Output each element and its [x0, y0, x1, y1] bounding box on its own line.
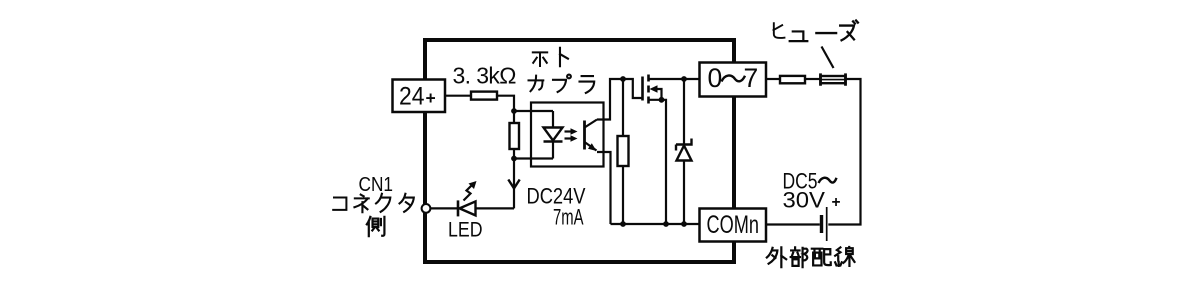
label katakana ho (photocoupler) [533, 52, 547, 66]
connector terminal circle CN1 [422, 204, 431, 213]
svg-text:+: + [832, 194, 841, 211]
label DC24V [527, 184, 586, 209]
wire output to load resistor [766, 78, 780, 80]
label 7mA [553, 205, 584, 230]
wire load resistor to fuse F1 [805, 78, 821, 80]
svg-text:LED: LED [448, 218, 483, 242]
fuse annotation line [822, 47, 834, 69]
svg-text:7: 7 [744, 63, 759, 93]
wire Q2 source to common rail [649, 100, 667, 224]
svg-text:+: + [426, 88, 436, 108]
current direction arrow DC24V [508, 180, 519, 189]
wire CN1 connector line [430, 207, 458, 209]
node diode bottom junction dot [681, 221, 687, 227]
phototransistor Q1 [585, 120, 598, 152]
wire Q1 emitter to common rail [597, 152, 611, 224]
label kanji hai (wiring) [812, 249, 831, 266]
wire Q1 collector to gate rail [597, 79, 642, 120]
label kanji sen (line) [835, 247, 854, 266]
label LED [448, 218, 483, 242]
wire cathode node down to CN1 line [513, 159, 515, 209]
node cathode junction dot [511, 156, 517, 162]
transistor Q2 body arrow [650, 85, 662, 100]
wire fuse to external supply [828, 79, 860, 225]
LED D3 indicator [458, 200, 514, 216]
wire anode node to opto LED [514, 110, 553, 112]
terminal box 0-7 [700, 63, 767, 97]
svg-text:7mA: 7mA [553, 205, 584, 230]
label CN1 katakana ko [333, 198, 346, 210]
wire opto LED cathode to node [514, 157, 553, 159]
svg-text:3. 3kΩ: 3. 3kΩ [453, 63, 517, 89]
label katakana small-yu (fuse) [790, 31, 808, 41]
label 24+ [399, 83, 436, 111]
terminal box 24+ [393, 80, 446, 113]
label DC5~ [783, 169, 837, 194]
label 30V [783, 188, 826, 213]
svg-text:24: 24 [399, 83, 425, 111]
node source rail junction dot [663, 221, 669, 227]
node Q2 source junction dot [659, 97, 665, 103]
label battery plus [832, 194, 841, 211]
label CN1 katakana ku [376, 194, 390, 212]
resistor R2 parallel bleeder [510, 111, 520, 159]
terminal box COMn [700, 209, 767, 242]
label kanji gai (external) [767, 247, 786, 267]
label katakana to (photocoupler) [560, 48, 568, 66]
LED emission lightning arrow [464, 181, 477, 201]
node gate rail junction dot [620, 76, 626, 82]
resistor R1 3.3kOhm body [471, 92, 497, 100]
diode D2 zener branch [676, 79, 692, 224]
svg-text:CN1: CN1 [359, 173, 394, 196]
label kanji soku (side) [367, 217, 385, 236]
label katakana pu (photocoupler) [553, 75, 571, 92]
label CN1 katakana ne [354, 195, 368, 213]
wire from 24+ terminal to resistor R1 [445, 95, 471, 97]
light emission arrows [565, 128, 578, 141]
fuse F1 [821, 73, 846, 85]
label katakana ka (photocoupler) [529, 76, 544, 92]
label kanji bu (part) [791, 247, 808, 267]
svg-text:COMn: COMn [707, 211, 760, 239]
opto LED D1 [544, 111, 563, 159]
node anode junction dot [511, 108, 517, 114]
wire COMn to battery [766, 223, 820, 225]
battery BT1 external supply [822, 207, 827, 241]
photocoupler U1 package box [531, 103, 604, 167]
label katakana chouon (fuse) [816, 28, 836, 38]
svg-text:30V: 30V [783, 188, 826, 213]
label 0~7 [708, 63, 759, 93]
node R3 bottom junction dot [620, 221, 626, 227]
wire from R1 to photocoupler anode node [497, 96, 514, 111]
transistor Q2 MOSFET gate plate [641, 77, 644, 101]
label katakana hi (fuse) [773, 23, 784, 38]
label 3.3kOhm [453, 63, 517, 89]
module outline border [425, 40, 734, 262]
label katakana zu (fuse) [840, 21, 858, 41]
resistor R4 external load [780, 76, 805, 83]
wire common rail [611, 223, 700, 225]
label CN1 [359, 173, 394, 196]
transistor Q2 channel segments [647, 75, 650, 104]
label CN1 katakana ta [400, 194, 414, 212]
svg-text:0: 0 [708, 63, 723, 93]
label katakana ra (photocoupler) [580, 76, 595, 93]
label COMn [707, 211, 760, 239]
node drain rail junction dot [681, 76, 687, 82]
wire Q2 drain to output terminal [649, 78, 700, 80]
resistor R3 gate branch [618, 79, 629, 224]
